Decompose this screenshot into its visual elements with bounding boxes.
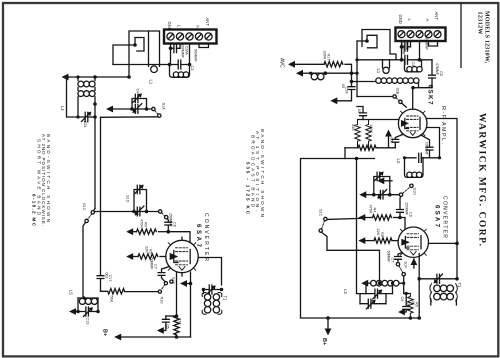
wire band row: [95, 211, 159, 213]
svg-text:ANT: ANT: [205, 18, 210, 27]
svg-text:250MMF: 250MMF: [405, 203, 409, 216]
svg-text:.05: .05: [166, 324, 170, 329]
wire grid to tube: [168, 232, 190, 243]
svg-text:AVC: AVC: [279, 58, 285, 68]
wire heater to bus: [418, 254, 420, 319]
svg-text:R6: R6: [415, 302, 419, 307]
svg-text:S1E: S1E: [171, 277, 175, 285]
svg-text:56MMF: 56MMF: [425, 37, 429, 51]
resistor R2 33K: [355, 120, 360, 148]
wire AVC row: [293, 63, 325, 65]
transformer L4 secondary: [78, 87, 95, 117]
tube V1 RF 6SK7: [398, 109, 427, 138]
trimmer capacitor C16: [360, 294, 386, 309]
svg-text:22K: 22K: [376, 229, 380, 236]
svg-text:C6: C6: [173, 222, 177, 227]
svg-text:R-F AMPL.: R-F AMPL.: [440, 106, 446, 144]
screw terminal ANT: [205, 33, 212, 40]
svg-text:C24: C24: [83, 121, 87, 128]
svg-text:.05: .05: [390, 137, 394, 142]
strip labels left: [167, 12, 439, 31]
screw terminal L: [176, 33, 183, 40]
resistor R5 right: [363, 238, 398, 243]
trimmer capacitor C13: [366, 283, 393, 299]
capacitor C11: [405, 153, 440, 162]
switch S1D: [159, 210, 168, 219]
chassis arrows: [62, 61, 439, 341]
svg-text:250MMF: 250MMF: [169, 213, 173, 227]
wire L4 left return: [67, 77, 85, 117]
capacitor C26B: [402, 43, 411, 52]
svg-text:S1F: S1F: [404, 262, 408, 270]
transformer T1 left: [202, 290, 222, 315]
capacitor C6: [165, 219, 172, 232]
svg-text:C7: C7: [154, 264, 158, 269]
wire plate to T1: [198, 258, 221, 286]
svg-text:47MMF: 47MMF: [435, 63, 439, 75]
loop antenna spiral hanger: [148, 31, 150, 66]
svg-text:S1D: S1D: [413, 188, 417, 196]
tube V2 converter 6SA7: [166, 237, 198, 276]
wire spiral stub right: [357, 40, 367, 42]
screw terminal GND: [167, 33, 174, 40]
trimmer capacitor box S1D: [134, 185, 147, 211]
wire S1C right row: [327, 218, 364, 219]
svg-text:C9: C9: [400, 297, 404, 302]
screw terminal A right: [425, 31, 432, 38]
screw terminal ANT right: [434, 31, 441, 38]
loop antenna spiral: [129, 31, 160, 77]
svg-text:470K: 470K: [140, 219, 144, 228]
svg-text:A: A: [196, 25, 201, 28]
trimmer capacitor C5L: [133, 104, 142, 114]
tube V3 converter 6SA7 right: [398, 227, 428, 257]
transformer T1 right: [430, 284, 457, 305]
svg-text:ANT: ANT: [434, 12, 439, 21]
wire converter plate right: [429, 242, 458, 244]
capacitor C12: [392, 135, 402, 148]
svg-text:GND: GND: [167, 22, 172, 31]
wire osc vertical B: [100, 117, 102, 275]
svg-text:.05: .05: [357, 108, 361, 113]
svg-text:470K: 470K: [369, 205, 373, 214]
resistor R8 100K: [366, 120, 371, 148]
svg-text:WARWICK MFG. CORP.: WARWICK MFG. CORP.: [477, 113, 487, 246]
wire switch row2: [101, 116, 158, 119]
wire grid row right: [413, 87, 432, 89]
loop antenna spiral inner right: [367, 35, 377, 48]
svg-text:C5: C5: [439, 71, 443, 76]
svg-text:CONVERTER: CONVERTER: [203, 213, 209, 261]
svg-text:12312W: 12312W: [477, 12, 483, 35]
wire grid cap RF: [412, 88, 414, 110]
svg-text:S1C: S1C: [319, 209, 323, 217]
svg-text:C4: C4: [136, 89, 140, 94]
svg-text:L1: L1: [149, 80, 154, 85]
wire antenna row: [113, 64, 190, 66]
wire chassis row L4: [66, 76, 129, 78]
resistor R5: [131, 254, 166, 259]
trimmer capacitor C15 right: [419, 274, 457, 283]
screw terminal A: [195, 33, 202, 40]
svg-text:C18: C18: [345, 87, 349, 94]
wire RF plate: [427, 119, 458, 279]
resistor R6 10K: [408, 294, 413, 319]
coil U right: [383, 60, 390, 74]
svg-text:C17: C17: [108, 275, 112, 282]
trimmer capacitor C24: [82, 112, 96, 121]
coil L1: [170, 65, 190, 78]
svg-text:R17: R17: [327, 54, 331, 61]
wire cathode chassis stub: [413, 259, 415, 268]
wire screen drop: [357, 159, 361, 294]
loop antenna coil right: [376, 78, 419, 88]
svg-text:10K: 10K: [411, 299, 415, 306]
svg-text:T1: T1: [457, 283, 462, 289]
capacitor C18: [335, 73, 355, 101]
wire grid to tube right: [400, 218, 405, 229]
capacitor C8: [162, 316, 169, 331]
capacitor C3: [178, 60, 181, 69]
loop bottom coil: [151, 66, 158, 73]
resistor R4: [131, 229, 169, 234]
svg-text:R10: R10: [160, 297, 164, 304]
svg-text:R5: R5: [380, 232, 384, 237]
wire A down: [189, 44, 191, 65]
resistor R9 56K: [101, 289, 159, 294]
svg-text:50MMF: 50MMF: [150, 258, 154, 270]
switch S1C: [85, 209, 95, 223]
wire chassis L5: [74, 311, 79, 313]
svg-text:S1D: S1D: [126, 195, 130, 203]
capacitor C7: [158, 267, 169, 282]
switch S1E right: [396, 263, 405, 276]
resistor AVC 2.2MEG row: [345, 145, 395, 150]
transformer L4 primary: [78, 77, 95, 87]
svg-text:B+: B+: [102, 329, 108, 336]
wire jumper ANT-A right: [429, 41, 438, 46]
svg-text:C6: C6: [409, 212, 413, 217]
svg-text:.002: .002: [105, 272, 109, 279]
screw terminal A2: [186, 33, 193, 40]
loop antenna spiral right: [362, 30, 396, 60]
svg-text:.05: .05: [406, 302, 410, 307]
wire antenna row right: [357, 59, 432, 61]
wire choke to C18: [325, 72, 357, 74]
screw terminal A2 right: [416, 31, 423, 38]
loop antenna spiral inner: [135, 38, 144, 52]
wire plate return: [185, 272, 191, 337]
resistor R17 330K: [324, 62, 352, 74]
svg-text:S1B: S1B: [396, 88, 400, 95]
trimmer capacitor row right: [374, 190, 400, 200]
svg-text:CONVERTER: CONVERTER: [442, 196, 448, 238]
svg-text:27K: 27K: [178, 318, 182, 325]
wire jumper ANT-A: [199, 44, 209, 48]
capacitor C9: [402, 294, 409, 313]
choke coil: [311, 73, 326, 80]
svg-text:100MMF: 100MMF: [402, 42, 406, 55]
svg-text:L5: L5: [69, 290, 74, 295]
wire GND down: [170, 44, 172, 65]
trimmer capacitor C4 box: [132, 94, 147, 109]
svg-text:R4: R4: [373, 208, 377, 213]
svg-text:C3: C3: [411, 62, 415, 67]
switch S1B: [357, 95, 406, 107]
wire B+ bus left: [116, 336, 191, 338]
wire tube cathode down: [176, 272, 178, 316]
svg-text:B+: B+: [321, 338, 327, 345]
switch S1C right: [319, 217, 327, 232]
coil L5: [78, 298, 98, 312]
svg-text:330K: 330K: [323, 51, 327, 60]
capacitor C3 right: [405, 55, 408, 64]
wire osc vertical A: [94, 117, 96, 209]
svg-text:C26A: C26A: [185, 46, 189, 55]
capacitor C5 47MMF: [429, 60, 436, 88]
wire screen RF: [427, 128, 440, 158]
wire chassis arrow stub: [388, 136, 390, 148]
wire S1C to L5: [83, 223, 85, 298]
svg-text:100K: 100K: [369, 124, 373, 133]
wire A down right: [419, 41, 421, 60]
capacitor C17: [97, 276, 104, 292]
svg-text:33K: 33K: [351, 124, 355, 131]
wire padder row1: [112, 108, 152, 110]
wire band row right: [364, 194, 374, 196]
trimmer capacitor row: [135, 206, 144, 216]
terminal strip TS1: [164, 30, 217, 44]
svg-text:100MMF: 100MMF: [181, 44, 185, 58]
wire AVC drop: [344, 148, 346, 159]
switch S1D right: [399, 184, 413, 196]
screw terminal GND right: [398, 31, 405, 38]
trimmer capacitor C15: [204, 285, 222, 295]
svg-text:C3: C3: [190, 66, 194, 71]
wire L2 bottom arrow: [382, 180, 392, 182]
svg-text:R4: R4: [144, 222, 148, 227]
svg-text:S1C: S1C: [82, 203, 86, 211]
svg-text:L4: L4: [60, 106, 65, 111]
wire GND down right: [401, 41, 403, 60]
wire L down right: [410, 41, 412, 47]
title box rule: [460, 3, 462, 68]
wire chassis row right: [301, 72, 311, 74]
switch S1E: [158, 280, 173, 293]
capacitor C26A: [171, 44, 181, 53]
svg-text:22K: 22K: [145, 246, 149, 253]
wire cap stub: [166, 315, 177, 317]
wire osc coil feed: [352, 81, 376, 83]
capacitor C7 right: [395, 253, 402, 263]
resistor R4 right: [364, 215, 400, 220]
svg-text:R5: R5: [149, 249, 153, 254]
screw terminal L right: [407, 31, 414, 38]
svg-text:C26B: C26B: [405, 42, 409, 50]
wire spiral vertical right: [356, 41, 358, 97]
wire S1E to L3: [403, 276, 405, 294]
svg-text:A: A: [425, 19, 430, 22]
wire RF grid return: [358, 119, 399, 121]
svg-text:50MMF: 50MMF: [387, 251, 391, 263]
coil L3: [366, 280, 404, 286]
svg-text:L1: L1: [376, 69, 381, 74]
svg-text:S1A: S1A: [162, 103, 166, 111]
wire B+ drop right: [327, 318, 329, 332]
wire 10K top: [404, 293, 411, 295]
wire stub to loop: [113, 45, 135, 65]
wire L down: [179, 44, 181, 49]
wire B+ rect right: [301, 159, 420, 319]
svg-text:MODELS 12310W,: MODELS 12310W,: [484, 11, 490, 64]
svg-text:L3: L3: [343, 289, 348, 294]
svg-text:C7: C7: [391, 258, 395, 263]
svg-text:L2: L2: [396, 159, 401, 164]
svg-text:535 - 1725 KC: 535 - 1725 KC: [245, 162, 250, 215]
wire S1C right to L3: [322, 232, 380, 283]
svg-text:C19: C19: [86, 318, 90, 325]
capacitor C6 right: [397, 210, 404, 218]
svg-text:GND: GND: [398, 15, 403, 24]
terminal strip TS2: [396, 28, 446, 42]
trimmer capacitor C19: [78, 307, 98, 317]
switch S1A: [152, 107, 161, 117]
coil L2: [405, 158, 424, 178]
svg-text:6-18.2 MC: 6-18.2 MC: [32, 194, 37, 227]
svg-text:100MMF: 100MMF: [425, 142, 429, 155]
svg-text:56MMF: 56MMF: [194, 49, 198, 63]
svg-text:T1: T1: [223, 296, 228, 302]
resistor R11 27K: [174, 316, 179, 335]
svg-text:6SK7: 6SK7: [427, 85, 433, 106]
trimmer capacitor box right: [374, 172, 390, 194]
wire osc grid drop: [400, 196, 401, 209]
svg-text:.05: .05: [341, 83, 345, 88]
capacitor C10: [357, 107, 366, 120]
capacitor C4 100MMF: [421, 135, 433, 158]
svg-text:56K: 56K: [110, 296, 114, 303]
coil L1 right: [405, 60, 423, 72]
